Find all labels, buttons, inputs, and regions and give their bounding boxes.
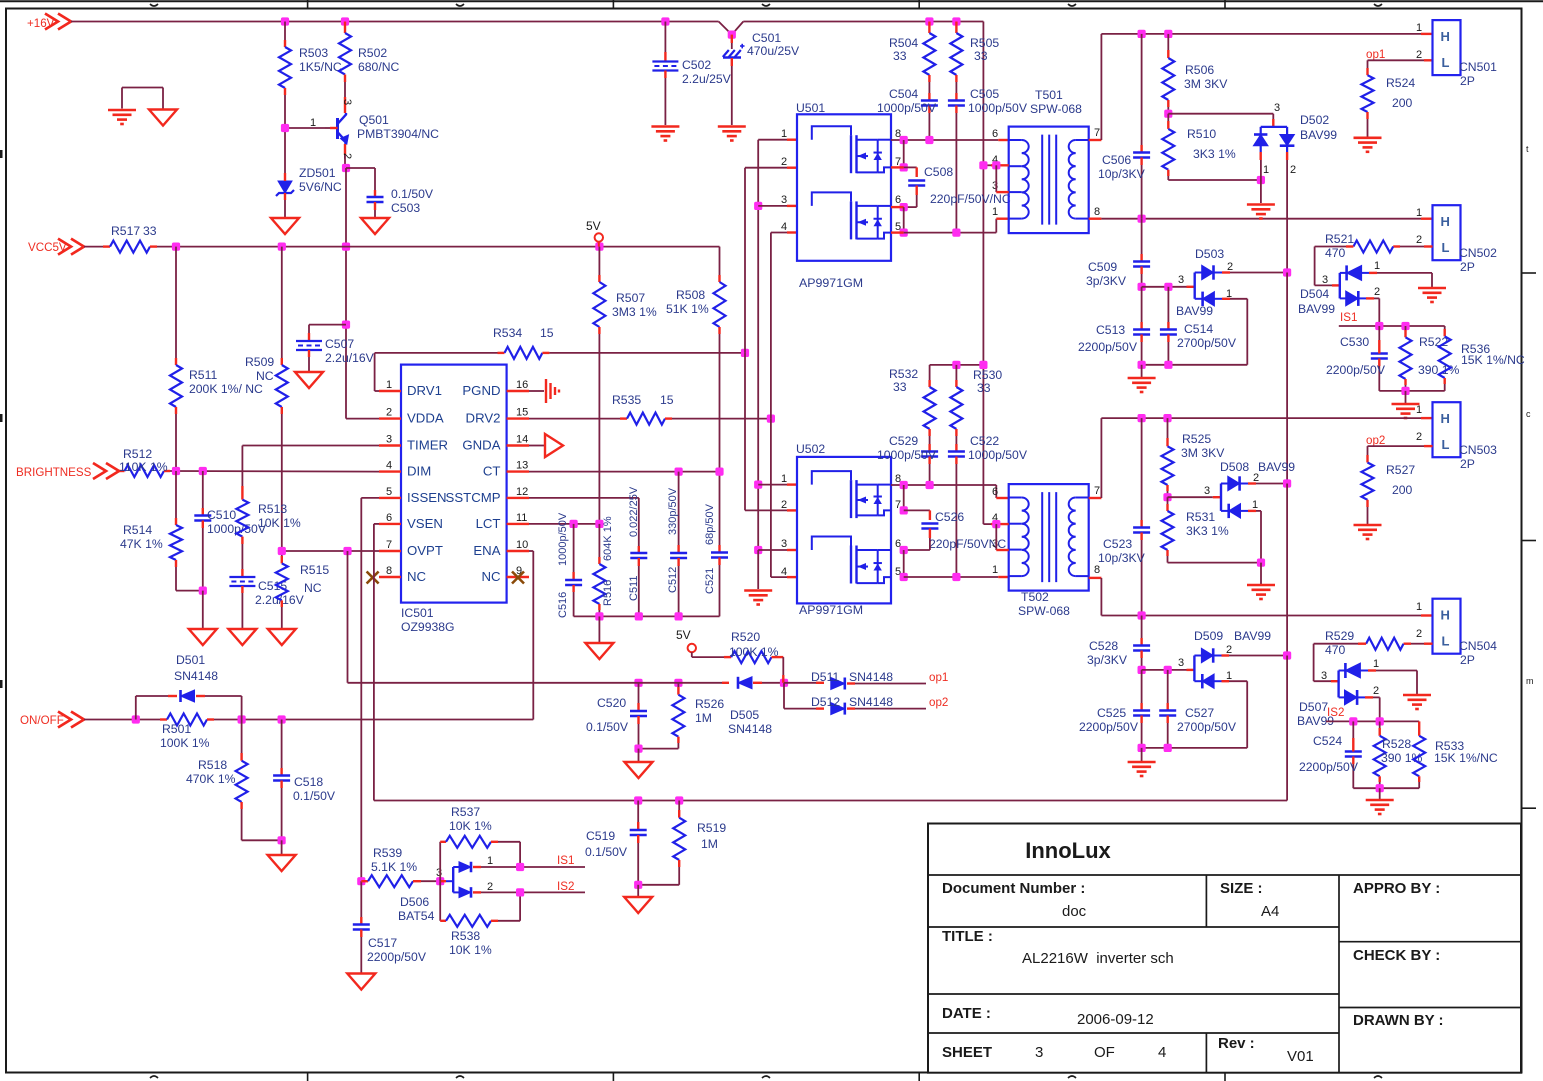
wire U501 pin4	[771, 232, 797, 234]
svg-text:604K 1%: 604K 1%	[602, 516, 614, 561]
label R502	[358, 46, 400, 74]
resistor R516	[593, 524, 605, 617]
svg-text:H: H	[1441, 29, 1450, 44]
svg-text:D506: D506	[400, 895, 429, 909]
label U501 pin4	[781, 221, 787, 233]
label C504	[877, 87, 937, 115]
label T502 pin4	[992, 512, 998, 524]
svg-text:33: 33	[893, 380, 907, 394]
svg-text:C510: C510	[207, 508, 236, 522]
svg-text:0.1/50V: 0.1/50V	[391, 187, 434, 201]
svg-text:0.022/25V: 0.022/25V	[628, 486, 640, 537]
svg-text:AP9971GM: AP9971GM	[799, 276, 863, 290]
svg-text:0.1/50V: 0.1/50V	[293, 789, 336, 803]
svg-text:T502: T502	[1021, 590, 1049, 604]
label C516 value	[557, 512, 569, 566]
ground triangle ZD501	[271, 218, 299, 234]
svg-text:33: 33	[977, 381, 991, 395]
connector CN504	[1433, 599, 1461, 654]
junction D509 pin2	[1283, 651, 1291, 659]
diode D507 (BAV99)	[1339, 663, 1368, 705]
junction T501 pins 3-4 jog	[992, 161, 1000, 169]
junction at C501	[728, 31, 736, 39]
wire pin1 bus to ground	[757, 550, 759, 589]
wire ch2 jog pins 8-7	[903, 485, 905, 510]
svg-text:2: 2	[341, 153, 353, 159]
net label op2 (wire end)	[929, 696, 948, 709]
svg-text:2200p/50V: 2200p/50V	[1078, 340, 1138, 354]
wire jog pins 8-7	[903, 140, 905, 167]
wire R507 to LCT	[598, 334, 600, 524]
svg-text:IS1: IS1	[1340, 311, 1357, 324]
svg-text:R512: R512	[123, 447, 152, 461]
svg-text:1: 1	[781, 473, 787, 485]
label R527	[1386, 463, 1415, 497]
junction VDDA vertical at C507	[342, 321, 350, 329]
junction ch2 rail at R530	[952, 361, 960, 369]
label D509 pin 1	[1226, 670, 1232, 682]
capacitor C530	[1371, 326, 1388, 391]
junction pin1 bus at U501 pin3	[754, 202, 762, 210]
svg-text:BAT54: BAT54	[398, 909, 435, 923]
junction C520/R526 bottom	[634, 745, 642, 753]
svg-text:D511: D511	[811, 670, 839, 684]
label D506 pin 1	[487, 855, 493, 867]
svg-text:C520: C520	[597, 696, 626, 710]
svg-text:L: L	[1442, 634, 1450, 649]
label T502 pin3	[992, 538, 998, 550]
svg-text:op1: op1	[1366, 48, 1385, 61]
resistor R532	[924, 365, 936, 436]
svg-text:3K3 1%: 3K3 1%	[1186, 524, 1229, 538]
svg-text:5V: 5V	[676, 628, 691, 642]
label D506 pin 3	[436, 867, 442, 879]
svg-text:330p/50V: 330p/50V	[667, 487, 679, 535]
label CN504 pin2	[1416, 628, 1422, 640]
resistor R518	[236, 720, 282, 841]
svg-text:IS2: IS2	[557, 880, 574, 893]
svg-text:SN4148: SN4148	[849, 670, 893, 684]
net label BRIGHTNESS	[16, 463, 119, 479]
svg-text:C506: C506	[1102, 153, 1131, 167]
svg-text:3: 3	[781, 194, 787, 206]
svg-text:2: 2	[781, 499, 787, 511]
label R533	[1434, 739, 1498, 765]
svg-text:100K 1%: 100K 1%	[160, 736, 210, 750]
resistor R534	[505, 347, 543, 359]
junction D508 pin2	[1283, 479, 1291, 487]
svg-text:BAV99: BAV99	[1258, 460, 1295, 474]
wire CN503 pin2 / R527	[1368, 446, 1433, 462]
label U502 pin6	[895, 538, 901, 550]
wire IS1 line	[1339, 325, 1445, 327]
wire SSTCMP line	[529, 498, 639, 553]
label BAV99 (D503)	[1176, 304, 1213, 318]
wire R535 to pin4 vertical	[665, 417, 771, 419]
resistor R539	[361, 875, 440, 887]
svg-text:Document Number :: Document Number :	[942, 880, 1085, 897]
svg-text:C527: C527	[1185, 706, 1214, 720]
wire D505 to junction	[762, 682, 784, 684]
label U502 pin8	[895, 473, 901, 485]
svg-text:R526: R526	[695, 697, 724, 711]
label R520	[729, 630, 779, 659]
PGND symbol pin16	[529, 379, 559, 403]
wire emitter to VDDA vertical	[346, 168, 379, 419]
label C521 value	[704, 503, 716, 545]
svg-text:SIZE :: SIZE :	[1220, 880, 1263, 897]
svg-text:R502: R502	[358, 46, 387, 60]
capacitor C505	[948, 82, 965, 233]
wire op line middle	[631, 682, 671, 684]
label R516	[602, 580, 614, 606]
svg-text:R522: R522	[1419, 335, 1448, 349]
svg-text:NC: NC	[407, 569, 427, 584]
junction rail at C525	[1138, 744, 1146, 752]
label R524	[1386, 76, 1415, 110]
svg-text:8: 8	[1094, 564, 1100, 576]
label T501 pin8	[1094, 206, 1100, 218]
label CN503	[1459, 443, 1497, 471]
svg-text:16: 16	[516, 379, 528, 391]
svg-text:C528: C528	[1089, 639, 1118, 653]
wire C501 to ground	[731, 66, 733, 125]
svg-text:220pF/50V/NC: 220pF/50V/NC	[930, 192, 1011, 206]
svg-text:C503: C503	[391, 201, 420, 215]
wire op1 line	[784, 682, 824, 684]
capacitor C519	[630, 801, 647, 885]
label C517	[367, 936, 427, 964]
label R511	[189, 368, 263, 396]
wire D509 pin3 line	[1142, 669, 1195, 671]
wire U501 pin7 stub	[891, 166, 904, 168]
GNDA symbol pin14	[529, 434, 563, 457]
svg-text:1: 1	[1416, 22, 1422, 34]
label U502	[796, 442, 825, 456]
resistor R501	[167, 714, 533, 726]
svg-text:op2: op2	[1366, 434, 1385, 447]
svg-text:C530: C530	[1340, 335, 1369, 349]
label C509	[1086, 260, 1127, 288]
svg-text:CN503: CN503	[1459, 443, 1497, 457]
svg-text:R501: R501	[162, 722, 191, 736]
resistor R533	[1413, 721, 1425, 788]
junction CT at C521/R508	[715, 468, 723, 476]
capacitor C522	[948, 436, 965, 577]
svg-text:3M 3KV: 3M 3KV	[1184, 77, 1228, 91]
label AP9971GM (U501)	[799, 276, 863, 290]
wire ch2 jog pins 6-5	[903, 550, 905, 577]
junction IS1 at C530	[1375, 322, 1383, 330]
label U501 pin5	[895, 221, 901, 233]
label R506	[1184, 63, 1228, 91]
junction rail at C511	[635, 612, 643, 620]
svg-text:D508: D508	[1220, 460, 1249, 474]
wire C502 to ground	[664, 71, 666, 126]
junction R518/C518 bottom	[278, 836, 286, 844]
label D504 pin 3	[1322, 274, 1328, 286]
NC X mark pin 8	[367, 572, 379, 584]
resistor R531	[1162, 497, 1174, 562]
wire D509 pin2 line	[1222, 654, 1288, 656]
resistor R524	[1362, 75, 1374, 138]
svg-text:R524: R524	[1386, 76, 1415, 90]
label R505	[970, 36, 999, 63]
wire VSEN long line	[374, 800, 1287, 802]
svg-text:D509: D509	[1194, 629, 1223, 643]
svg-text:3: 3	[1321, 670, 1327, 682]
label D502	[1300, 113, 1337, 142]
wire VSEN jog	[374, 524, 379, 801]
svg-text:R535: R535	[612, 393, 641, 407]
label R507	[612, 291, 657, 319]
label R514	[120, 523, 163, 551]
label C521	[704, 568, 716, 594]
svg-text:Rev :: Rev :	[1218, 1035, 1255, 1052]
svg-text:D501: D501	[176, 653, 205, 667]
wire C503 to ground	[374, 202, 376, 218]
svg-text:4: 4	[1158, 1044, 1166, 1061]
label BAV99 (D509)	[1234, 629, 1271, 643]
label C529	[877, 434, 937, 462]
wire IS2 out	[481, 891, 585, 893]
net label IS2 (divider)	[1327, 706, 1344, 719]
title block A4	[1261, 903, 1279, 920]
svg-text:ISSEN: ISSEN	[407, 490, 447, 505]
wire rail to ground (C525)	[1141, 748, 1143, 761]
svg-text:C504: C504	[889, 87, 918, 101]
label T502 pin8	[1094, 564, 1100, 576]
svg-text:1: 1	[1416, 601, 1422, 613]
junction D509 line at C527	[1164, 666, 1172, 674]
junction pin1 bus at U502 pin1	[754, 481, 762, 489]
label R536	[1461, 342, 1525, 367]
svg-text:1: 1	[386, 379, 392, 391]
svg-text:R516: R516	[602, 580, 614, 606]
capacitor C528	[1133, 616, 1150, 670]
junction ch2 pin6 jog	[900, 546, 908, 554]
svg-text:APPRO BY :: APPRO BY :	[1353, 880, 1440, 897]
label D508	[1220, 460, 1249, 474]
wire TIMER to R513	[242, 446, 379, 500]
label C523	[1098, 537, 1146, 565]
power symbol 5V (R520)	[676, 628, 696, 652]
svg-text:3K3 1%: 3K3 1%	[1193, 147, 1236, 161]
junction D503 line at C514	[1164, 283, 1172, 291]
svg-text:47K 1%: 47K 1%	[120, 537, 163, 551]
label R525	[1181, 432, 1225, 460]
junction rail at C513	[1138, 361, 1146, 369]
svg-text:C517: C517	[368, 936, 397, 950]
connector CN502	[1433, 205, 1461, 260]
junction D502 pin1	[1257, 176, 1265, 184]
svg-text:R507: R507	[616, 291, 645, 305]
svg-text:C529: C529	[889, 434, 918, 448]
label C505	[968, 87, 1028, 115]
svg-text:8: 8	[386, 565, 392, 577]
junction IS1 at R522	[1401, 322, 1409, 330]
net label op1 (wire end)	[929, 671, 948, 684]
label D501	[174, 653, 218, 683]
svg-text:R510: R510	[1187, 127, 1216, 141]
label D506	[398, 895, 435, 923]
wire ZD501 to ground	[284, 200, 286, 218]
svg-text:15: 15	[516, 407, 528, 419]
junction R535 line	[767, 415, 775, 423]
label Q501 pin 1	[310, 117, 316, 129]
svg-text:C505: C505	[970, 87, 999, 101]
svg-text:3: 3	[1178, 657, 1184, 669]
svg-text:SN4148: SN4148	[174, 669, 218, 683]
svg-text:1: 1	[781, 128, 787, 140]
wire U502 pin1	[758, 484, 797, 486]
label R538	[449, 929, 492, 957]
svg-text:11: 11	[516, 512, 527, 524]
svg-text:ON/OFF: ON/OFF	[20, 714, 64, 727]
label C515	[255, 579, 305, 607]
svg-text:DATE :: DATE :	[942, 1005, 991, 1022]
resistor R513	[236, 500, 248, 577]
junction ISSEN at R539/C517	[357, 877, 365, 885]
junction CN503 line at R525	[1163, 414, 1171, 422]
svg-text:U501: U501	[796, 101, 825, 115]
svg-text:OVPT: OVPT	[407, 543, 443, 558]
wire C525/C527 bottom rail	[1142, 747, 1248, 749]
svg-text:2.2u/25V: 2.2u/25V	[682, 72, 732, 86]
svg-text:7: 7	[1094, 127, 1100, 139]
wire D502 pin1 down	[1260, 160, 1262, 203]
svg-text:H: H	[1441, 608, 1450, 623]
junction ch2 pin5 jog	[900, 573, 908, 581]
svg-text:10K 1%: 10K 1%	[449, 943, 492, 957]
svg-text:68p/50V: 68p/50V	[704, 503, 716, 545]
svg-text:R508: R508	[676, 288, 705, 302]
svg-text:R513: R513	[258, 502, 287, 516]
title block OF	[1094, 1044, 1115, 1061]
label T502 pin7	[1094, 485, 1100, 497]
svg-text:R528: R528	[1382, 737, 1411, 751]
svg-text:2: 2	[487, 881, 493, 893]
label CN504 pin1	[1416, 601, 1422, 613]
svg-text:C523: C523	[1103, 537, 1132, 551]
label D503 pin 2	[1227, 261, 1233, 273]
label D509	[1194, 629, 1223, 643]
ground triangle C503	[361, 218, 389, 234]
label D507 pin 2	[1373, 685, 1379, 697]
svg-text:2700p/50V: 2700p/50V	[1177, 336, 1237, 350]
svg-text:680/NC: 680/NC	[358, 60, 400, 74]
title block DRAWN BY	[1353, 1012, 1444, 1029]
svg-text:CT: CT	[483, 464, 501, 479]
svg-text:R525: R525	[1182, 432, 1211, 446]
wire U501 pin3	[758, 205, 797, 207]
wire D508 pin1 loop	[1248, 511, 1261, 563]
svg-text:2200p/50V: 2200p/50V	[1299, 760, 1359, 774]
junction Q501 base	[281, 124, 289, 132]
diode D512 (SN4148)	[831, 703, 926, 715]
resistor R504	[923, 22, 935, 83]
junction IS2 at C524	[1349, 717, 1357, 725]
svg-text:4: 4	[781, 221, 787, 233]
capacitor C513	[1133, 287, 1150, 365]
wire U501 pin6 stub	[891, 206, 904, 208]
label R513	[258, 502, 301, 530]
svg-text:2: 2	[1253, 472, 1259, 484]
label C514	[1177, 322, 1237, 350]
label R535	[612, 393, 674, 407]
svg-text:470: 470	[1325, 643, 1346, 657]
wire U501 pin8 to T501 pin6	[891, 139, 1009, 141]
label D503 pin 1	[1226, 288, 1232, 300]
svg-text:5.1K 1%: 5.1K 1%	[371, 860, 417, 874]
svg-text:A4: A4	[1261, 903, 1279, 920]
diode D503 (BAV99)	[1195, 265, 1222, 306]
svg-text:1: 1	[1252, 499, 1258, 511]
wire VCC5V corner to R508	[719, 247, 721, 282]
svg-text:R515: R515	[300, 563, 329, 577]
svg-text:R534: R534	[493, 326, 522, 340]
capacitor C515	[229, 577, 255, 586]
svg-text:ENA: ENA	[473, 543, 500, 558]
junction CT at C512	[675, 468, 683, 476]
capacitor C501	[723, 35, 745, 66]
resistor R502	[339, 22, 351, 83]
junction VDDA vertical at VCC5V	[342, 243, 350, 251]
capacitor C523	[1133, 418, 1150, 615]
junction C509/C513/D503	[1138, 283, 1146, 291]
connector CN503	[1433, 402, 1461, 457]
svg-text:CN504: CN504	[1459, 639, 1497, 653]
capacitor C514	[1160, 287, 1177, 365]
wire jog pins 6-5	[903, 207, 905, 233]
label D507	[1297, 700, 1334, 728]
label D502 pin 3	[1274, 102, 1280, 114]
wire D503 pin2 line	[1222, 271, 1287, 273]
wire U501 pin5 to T501 pin1	[904, 219, 1009, 233]
net label IS1 (sense)	[557, 854, 574, 867]
wire IS1 divider bottom	[1379, 390, 1444, 392]
svg-text:2P: 2P	[1460, 74, 1475, 88]
wire D508 pin2 line	[1248, 482, 1287, 484]
wire R531 bottom line	[1168, 562, 1262, 564]
wire IS1 out	[481, 866, 585, 868]
resistor R521	[1315, 241, 1433, 253]
label R518	[186, 758, 236, 786]
ground earth C502	[651, 127, 679, 141]
svg-text:C521: C521	[704, 568, 716, 594]
svg-text:C525: C525	[1097, 706, 1126, 720]
svg-text:1K5/NC: 1K5/NC	[299, 60, 342, 74]
wire D507 pin1 to ground	[1368, 671, 1417, 695]
junction LCT at C516	[570, 520, 578, 528]
svg-text:3: 3	[781, 538, 787, 550]
op-amp IC501 (OZ9938G controller)	[379, 365, 529, 603]
ground triangle C515	[228, 629, 256, 645]
label D508 pin 2	[1253, 472, 1259, 484]
label D509 pin 2	[1226, 644, 1232, 656]
ground earth C513	[1128, 378, 1156, 392]
svg-text:TITLE :: TITLE :	[942, 928, 993, 945]
svg-text:CHECK BY :: CHECK BY :	[1353, 947, 1440, 964]
resistor R507	[593, 247, 605, 334]
svg-text:C526: C526	[935, 510, 964, 524]
svg-text:3M3 1%: 3M3 1%	[612, 305, 657, 319]
junction C522 bottom	[952, 573, 960, 581]
svg-text:U502: U502	[796, 442, 825, 456]
svg-text:DIM: DIM	[407, 464, 431, 479]
svg-text:10: 10	[516, 539, 528, 551]
svg-text:1000p/50V: 1000p/50V	[557, 512, 569, 566]
